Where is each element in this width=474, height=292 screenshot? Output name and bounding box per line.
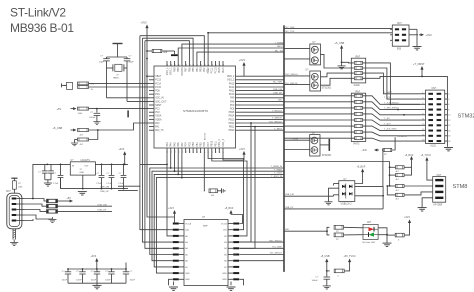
- svg-text:LED: LED: [278, 100, 283, 102]
- svg-text:BMP: BMP: [203, 226, 208, 228]
- svg-text:C?: C?: [130, 271, 134, 273]
- buffer U3 level shifter: [168, 207, 244, 291]
- wire USB_DM DP to USBLC6: [284, 195, 334, 197]
- svg-text:41: 41: [197, 64, 199, 66]
- crystal Y1 8MHz with load caps: [99, 44, 149, 102]
- svg-text:TLK_SWCLK: TLK_SWCLK: [285, 83, 298, 85]
- capacitor C? output caps: [96, 148, 126, 189]
- svg-text:B7: B7: [224, 267, 227, 269]
- svg-text:5: 5: [208, 152, 210, 153]
- U2 pins: [149, 61, 241, 153]
- transistor U8 STS2301 dual: [284, 133, 332, 157]
- svg-text:USB_DP: USB_DP: [273, 93, 282, 95]
- svg-text:B6: B6: [224, 261, 227, 263]
- svg-text:PC9: PC9: [230, 105, 235, 107]
- svg-text:PA9: PA9: [230, 97, 235, 100]
- svg-text:PC8: PC8: [230, 109, 235, 111]
- svg-text:KF-SWF: KF-SWF: [434, 204, 443, 206]
- svg-text:12: 12: [448, 120, 451, 122]
- svg-text:VSS_1: VSS_1: [170, 67, 173, 75]
- svg-text:PB12: PB12: [229, 123, 235, 125]
- svg-text:36: 36: [178, 64, 180, 66]
- svg-text:VBAT: VBAT: [155, 75, 161, 78]
- svg-text:4k7: 4k7: [80, 144, 84, 146]
- connector J1 with series resistors: [62, 82, 150, 91]
- svg-text:C?: C?: [62, 271, 66, 273]
- svg-text:44: 44: [208, 64, 210, 66]
- svg-text:+5_USB: +5_USB: [335, 41, 345, 45]
- svg-text:R?: R?: [384, 154, 388, 156]
- svg-text:37: 37: [182, 64, 184, 66]
- svg-text:VSS_3: VSS_3: [218, 139, 221, 147]
- svg-text:47: 47: [219, 64, 221, 66]
- svg-text:C?: C?: [119, 173, 123, 175]
- svg-text:PB8: PB8: [177, 67, 180, 72]
- svg-text:T_SWDIO: T_SWDIO: [272, 118, 282, 120]
- svg-text:100nF: 100nF: [312, 280, 319, 282]
- resistor R6 100k with cap C? reset network: [57, 107, 150, 124]
- svg-text:NC_TCK: NC_TCK: [286, 31, 295, 33]
- svg-text:T_SWIM: T_SWIM: [274, 169, 282, 171]
- svg-text:PB14: PB14: [229, 116, 235, 118]
- svg-text:CN?: CN?: [397, 23, 402, 25]
- wire 5V feed: [33, 164, 70, 199]
- svg-text:PA2_TX: PA2_TX: [155, 129, 164, 132]
- svg-text:4k7: 4k7: [396, 199, 400, 201]
- svg-text:4: 4: [212, 152, 214, 153]
- svg-text:VDD_1: VDD_1: [166, 67, 169, 75]
- svg-text:A5: A5: [185, 253, 188, 256]
- svg-text:A6: A6: [185, 260, 188, 263]
- svg-text:MC_TDI: MC_TDI: [275, 50, 284, 52]
- wire usb dm dp: [57, 205, 112, 207]
- svg-text:33: 33: [167, 64, 169, 66]
- svg-text:43: 43: [204, 64, 206, 66]
- svg-text:USB_DM: USB_DM: [98, 204, 107, 206]
- svg-text:20pF: 20pF: [129, 62, 135, 64]
- resistor network RN2: [284, 91, 366, 145]
- svg-text:PC15: PC15: [155, 87, 161, 89]
- svg-text:STS2301: STS2301: [322, 155, 332, 157]
- svg-text:TMC_SWCLK: TMC_SWCLK: [269, 240, 283, 242]
- svg-text:7: 7: [201, 152, 203, 153]
- svg-text:CN?: CN?: [437, 175, 442, 177]
- svg-text:LD1117S: LD1117S: [81, 160, 91, 162]
- svg-text:VSSA: VSSA: [155, 115, 162, 118]
- svg-text:X?: X?: [116, 75, 119, 77]
- wire LED net: [284, 229, 328, 232]
- svg-text:PB3: PB3: [199, 67, 202, 72]
- svg-text:+5V: +5V: [57, 107, 62, 111]
- svg-text:10: 10: [448, 115, 451, 117]
- capacitor C? usb 5v caps: [38, 164, 54, 186]
- transistor U7 STS2301 dual: [284, 70, 354, 92]
- wire MCU right nets to bus: [241, 76, 285, 130]
- capacitor bank 100nF x5: [62, 255, 136, 289]
- svg-text:PA5: PA5: [173, 142, 176, 147]
- svg-text:TDL_SWD: TDL_SWD: [272, 247, 282, 249]
- svg-text:A3: A3: [185, 241, 188, 244]
- svg-text:48: 48: [223, 64, 225, 66]
- svg-text:PD2: PD2: [203, 67, 206, 72]
- svg-text:39: 39: [189, 64, 191, 66]
- svg-text:BOOT1: BOOT1: [205, 132, 207, 140]
- svg-text:PA15: PA15: [218, 67, 221, 73]
- svg-text:PA14: PA14: [222, 67, 225, 73]
- svg-text:PC6: PC6: [203, 141, 206, 146]
- svg-text:ST-Link/V2: ST-Link/V2: [10, 6, 66, 20]
- resistor R? 0ohm power tie: [327, 255, 356, 277]
- svg-text:K120: K120: [431, 146, 437, 148]
- svg-text:1: 1: [223, 152, 225, 153]
- svg-text:PC11: PC11: [211, 67, 214, 73]
- svg-text:4x10k: 4x10k: [354, 85, 361, 87]
- svg-text:+5_BUF: +5_BUF: [225, 207, 234, 210]
- svg-text:PB10: PB10: [229, 130, 235, 132]
- svg-text:2.2uF: 2.2uF: [118, 183, 124, 185]
- svg-text:+3V3: +3V3: [168, 207, 174, 210]
- connector CN2 20-pin JTAG: [420, 88, 453, 151]
- svg-text:1B1: 1B1: [223, 230, 228, 232]
- svg-text:GND: GND: [80, 172, 85, 174]
- svg-text:PC1: PC1: [155, 109, 160, 111]
- svg-text:Bi-Color LED: Bi-Color LED: [363, 241, 376, 244]
- svg-text:34: 34: [171, 64, 173, 66]
- svg-text:14: 14: [175, 151, 177, 153]
- svg-text:R?: R?: [18, 183, 22, 185]
- svg-text:PA10: PA10: [229, 93, 235, 96]
- LED LD1 bicolor: [363, 222, 392, 246]
- svg-text:C?: C?: [316, 277, 320, 279]
- svg-text:100k: 100k: [78, 113, 84, 115]
- capacitor C? 100nF bottom right: [312, 271, 331, 289]
- svg-text:100nF: 100nF: [91, 280, 97, 282]
- wire bus: [283, 25, 285, 272]
- wire regulator rails: [61, 164, 129, 195]
- power +5V_USB: [335, 41, 354, 69]
- svg-text:3T: 3T: [80, 169, 83, 171]
- svg-text:2.2uF: 2.2uF: [96, 183, 102, 185]
- svg-text:14: 14: [448, 125, 451, 127]
- svg-text:11: 11: [186, 151, 188, 153]
- svg-text:PA8: PA8: [230, 100, 235, 103]
- svg-text:PB13: PB13: [229, 119, 235, 121]
- power +3V3 IC bottom right: [223, 148, 246, 160]
- svg-text:T_NRST: T_NRST: [384, 92, 393, 94]
- power +5_USB bottom: [321, 255, 330, 272]
- connector CN3 E06: [390, 23, 432, 51]
- svg-text:9: 9: [193, 152, 195, 153]
- svg-text:T_JTDO: T_JTDO: [274, 173, 282, 175]
- svg-text:+5_BUF: +5_BUF: [357, 166, 366, 169]
- svg-text:18: 18: [448, 136, 451, 138]
- svg-text:PC5: PC5: [188, 141, 191, 146]
- svg-text:VDD_2: VDD_2: [227, 76, 235, 78]
- svg-text:OSC_OUT: OSC_OUT: [155, 101, 167, 103]
- svg-text:16: 16: [167, 151, 169, 153]
- svg-text:OUT: OUT: [84, 166, 89, 168]
- svg-text:+5_BUF: +5_BUF: [405, 154, 414, 157]
- svg-text:C?: C?: [129, 56, 133, 58]
- svg-text:+3V3: +3V3: [141, 21, 148, 25]
- svg-text:100nF: 100nF: [62, 280, 68, 282]
- svg-text:PD1: PD1: [155, 94, 160, 96]
- svg-text:CN?: CN?: [432, 88, 437, 90]
- svg-text:PB9: PB9: [173, 67, 176, 72]
- svg-text:+T_NRST: +T_NRST: [413, 62, 425, 66]
- svg-text:PB5: PB5: [192, 67, 195, 72]
- diode array U4 USBLC6-2: [284, 166, 384, 209]
- svg-text:10: 10: [189, 151, 191, 153]
- svg-text:+3V3: +3V3: [239, 58, 246, 62]
- svg-text:13: 13: [178, 151, 180, 153]
- svg-text:PC10: PC10: [214, 67, 217, 74]
- svg-text:4: 4: [448, 99, 450, 101]
- svg-text:E06: E06: [397, 49, 402, 51]
- svg-text:USB_DM: USB_DM: [273, 89, 282, 91]
- svg-text:VDDA: VDDA: [155, 118, 162, 121]
- svg-text:+3V3: +3V3: [426, 33, 433, 37]
- wire usb data to trunks: [100, 186, 140, 193]
- svg-text:1M5: 1M5: [18, 186, 23, 188]
- svg-text:STM32F103CBT6: STM32F103CBT6: [183, 109, 208, 113]
- transistor U5 STS2301 dual: [284, 42, 354, 68]
- svg-text:TDL_SWCLK: TDL_SWCLK: [270, 253, 283, 255]
- svg-text:15: 15: [171, 151, 173, 153]
- svg-text:PC13: PC13: [155, 80, 161, 82]
- svg-text:PB7: PB7: [185, 67, 188, 72]
- regulator U1 LD1117: [70, 160, 95, 189]
- svg-text:PD0: PD0: [155, 91, 160, 93]
- svg-text:VCCA: VCCA: [185, 222, 191, 225]
- svg-text:-JCD: -JCD: [362, 150, 368, 152]
- svg-text:B3: B3: [224, 242, 227, 244]
- svg-text:+3V3: +3V3: [119, 148, 125, 151]
- svg-text:4k7: 4k7: [396, 190, 400, 192]
- svg-text:+5_TVCC: +5_TVCC: [421, 154, 432, 157]
- svg-text:PB10: PB10: [211, 140, 214, 147]
- svg-text:+5_USB: +5_USB: [321, 255, 330, 258]
- svg-text:USB_DM: USB_DM: [285, 194, 294, 196]
- svg-text:4k7: 4k7: [80, 134, 84, 136]
- svg-text:GND: GND: [222, 279, 227, 281]
- svg-text:A4: A4: [185, 247, 188, 250]
- svg-text:T_SWCLK: T_SWCLK: [272, 111, 283, 113]
- svg-text:T_SWIM_IN: T_SWIM_IN: [271, 166, 283, 168]
- svg-text:C?: C?: [105, 271, 109, 273]
- resistor block R? usb series: [25, 197, 113, 222]
- svg-text:C?: C?: [97, 173, 101, 175]
- svg-text:C?: C?: [91, 271, 95, 273]
- svg-text:20: 20: [448, 141, 451, 143]
- svg-text:OSC_IN: OSC_IN: [155, 98, 164, 100]
- svg-text:+5V_TVCC: +5V_TVCC: [344, 255, 356, 258]
- svg-text:0: 0: [398, 239, 400, 241]
- svg-text:PB1: PB1: [196, 142, 199, 147]
- svg-text:NC_TMS: NC_TMS: [273, 82, 283, 84]
- svg-text:LD?: LD?: [367, 222, 372, 224]
- resistor R? 4k7 column: [382, 149, 433, 201]
- resistor R? near CN2: [362, 136, 408, 156]
- svg-text:PA12: PA12: [229, 86, 235, 89]
- svg-text:VUSBICE: VUSBICE: [397, 136, 407, 138]
- shield hatch stub: [10, 229, 18, 246]
- wire top loops: [140, 27, 392, 61]
- svg-text:GND: GND: [185, 273, 190, 275]
- svg-text:USB_DP: USB_DP: [100, 191, 109, 193]
- svg-text:46: 46: [216, 64, 218, 66]
- svg-text:C?: C?: [100, 56, 104, 58]
- svg-text:NC_VHS: NC_VHS: [286, 27, 295, 29]
- svg-text:PB2: PB2: [199, 142, 202, 147]
- op-amp U2 MCU STM32F103CBT6 body: [154, 66, 236, 148]
- svg-text:PA7: PA7: [181, 142, 184, 147]
- svg-text:T_JMS_SWDIO: T_JMS_SWDIO: [384, 108, 399, 110]
- svg-text:PB11: PB11: [229, 127, 235, 129]
- connector CN4 STM8 SWIM: [418, 175, 446, 211]
- svg-text:45: 45: [212, 64, 214, 66]
- svg-text:VSS_2: VSS_2: [227, 80, 235, 82]
- svg-text:T_JRST: T_JRST: [274, 129, 283, 131]
- svg-text:T_JCK: T_JCK: [384, 97, 391, 99]
- svg-text:VCCB: VCCB: [221, 223, 227, 225]
- svg-text:PA13: PA13: [229, 82, 235, 85]
- svg-text:8: 8: [448, 109, 450, 111]
- svg-text:A2: A2: [185, 235, 188, 238]
- svg-text:1A1: 1A1: [185, 229, 190, 232]
- svg-text:T_JDI: T_JDI: [384, 118, 390, 120]
- svg-text:T_JCK_SWCLK: T_JCK_SWCLK: [384, 102, 400, 104]
- svg-text:PB4: PB4: [196, 67, 199, 72]
- svg-text:PB15: PB15: [229, 112, 235, 114]
- svg-text:T_JDO: T_JDO: [384, 123, 391, 125]
- svg-text:T_SWIM: T_SWIM: [290, 138, 298, 140]
- svg-text:0: 0: [338, 275, 340, 277]
- svg-text:38: 38: [186, 64, 188, 66]
- svg-text:MB936 B-01: MB936 B-01: [10, 21, 74, 35]
- svg-text:12: 12: [182, 151, 184, 153]
- svg-text:PA0: PA0: [155, 122, 160, 125]
- svg-text:TLK_SWCLK: TLK_SWCLK: [269, 121, 283, 123]
- svg-text:PB11: PB11: [214, 140, 217, 146]
- svg-text:BOOT0: BOOT0: [181, 67, 184, 76]
- svg-text:PC7: PC7: [207, 141, 210, 146]
- resistor network RN1 4x10k: [351, 57, 365, 88]
- svg-text:100nF: 100nF: [105, 280, 111, 282]
- svg-text:+5V: +5V: [67, 197, 72, 200]
- svg-text:R?: R?: [336, 239, 340, 241]
- svg-text:100nF: 100nF: [76, 280, 82, 282]
- svg-text:U?: U?: [202, 216, 206, 219]
- ground at U3: [169, 279, 173, 285]
- svg-text:42: 42: [201, 64, 203, 66]
- svg-text:U?: U?: [306, 70, 310, 72]
- svg-text:STM8: STM8: [453, 184, 468, 190]
- svg-text:40: 40: [193, 64, 195, 66]
- wire buffer rail: [284, 161, 390, 163]
- svg-text:100nF: 100nF: [89, 117, 96, 119]
- svg-text:C?: C?: [107, 173, 111, 175]
- svg-text:2: 2: [448, 94, 450, 96]
- wire RN2 to CN2: [363, 63, 423, 141]
- svg-text:4k7: 4k7: [396, 179, 400, 181]
- svg-text:PB0: PB0: [192, 142, 195, 147]
- wire staircase nets: [140, 36, 284, 273]
- svg-text:GND: GND: [222, 273, 227, 275]
- power +5V usb: [68, 200, 71, 202]
- svg-text:8: 8: [197, 152, 199, 153]
- wire cap bank feed: [125, 263, 127, 270]
- svg-text:GND: GND: [185, 279, 190, 281]
- svg-text:USB_DP: USB_DP: [285, 207, 294, 209]
- svg-text:100nF: 100nF: [130, 280, 136, 282]
- svg-text:LED: LED: [285, 229, 290, 231]
- svg-text:NRST: NRST: [155, 105, 162, 107]
- svg-text:6: 6: [204, 152, 206, 153]
- power +T_NRST: [413, 62, 447, 99]
- svg-text:2.2uF: 2.2uF: [53, 183, 59, 185]
- svg-text:10k: 10k: [211, 195, 215, 197]
- svg-text:THC_SWCLK: THC_SWCLK: [285, 74, 298, 76]
- resistor R? 1M5 shield: [11, 178, 23, 193]
- svg-text:6: 6: [448, 104, 450, 106]
- resistor R? 10k boot1: [204, 153, 225, 197]
- resistor R? 10k boot: [146, 49, 178, 217]
- svg-text:8MHz: 8MHz: [113, 78, 119, 80]
- svg-text:RN?2: RN?2: [354, 144, 361, 146]
- capacitor C? input 2.2uF: [53, 164, 63, 188]
- svg-text:C?: C?: [38, 172, 42, 174]
- svg-text:USBLC6-2: USBLC6-2: [341, 203, 353, 205]
- svg-text:PC2: PC2: [155, 112, 160, 114]
- connector CN1 USB: [6, 191, 25, 229]
- svg-text:PC12: PC12: [207, 67, 210, 74]
- svg-text:PA4: PA4: [170, 142, 173, 147]
- svg-text:T_JCK_SWD: T_JCK_SWD: [384, 129, 397, 131]
- svg-text:C?: C?: [76, 271, 80, 273]
- resistor R? 4k7 pullups: [53, 123, 150, 146]
- svg-text:T_JRST_IN: T_JRST_IN: [271, 176, 282, 178]
- svg-text:4k7: 4k7: [396, 171, 400, 173]
- svg-text:1k: 1k: [91, 89, 94, 91]
- svg-text:B5: B5: [224, 254, 227, 256]
- svg-text:C?: C?: [90, 112, 94, 114]
- svg-text:PA1: PA1: [155, 126, 160, 129]
- svg-text:16: 16: [448, 130, 451, 132]
- svg-text:35: 35: [175, 64, 177, 66]
- svg-text:PC4: PC4: [185, 141, 188, 146]
- svg-text:STM32: STM32: [458, 114, 474, 120]
- resistor R? LED red: [327, 225, 363, 233]
- svg-text:B4: B4: [224, 248, 227, 250]
- svg-text:2.2uF: 2.2uF: [106, 183, 112, 185]
- svg-text:PC14: PC14: [155, 83, 161, 85]
- power +3V3 at U2 VDD2: [239, 58, 246, 76]
- svg-text:+3V3: +3V3: [239, 148, 245, 151]
- svg-text:A7: A7: [185, 266, 188, 269]
- resistor R? LED green: [327, 231, 363, 241]
- svg-text:STS2301: STS2301: [322, 87, 332, 89]
- resistor R? 0ohm to 3V3: [387, 216, 411, 241]
- svg-text:NRST: NRST: [277, 46, 284, 48]
- svg-text:PA6: PA6: [177, 142, 180, 147]
- svg-text:20pF: 20pF: [99, 62, 105, 64]
- svg-text:+3V3: +3V3: [91, 255, 97, 258]
- svg-text:IN: IN: [72, 166, 75, 168]
- svg-text:CN?: CN?: [6, 191, 11, 193]
- svg-text:VDD_3: VDD_3: [222, 138, 225, 146]
- svg-text:PA11: PA11: [229, 90, 235, 93]
